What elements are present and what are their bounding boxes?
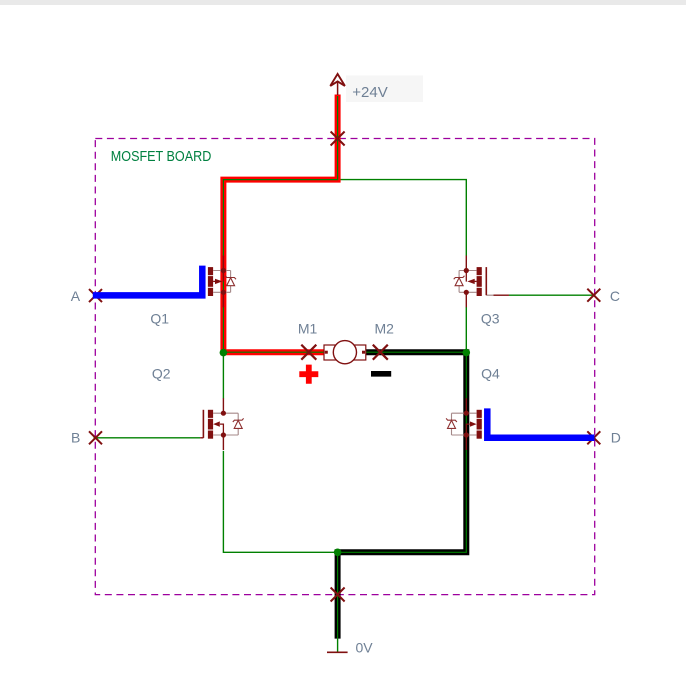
wire: +24V supply path (highlighted red) — [223, 95, 337, 353]
Q2 gate plate — [202, 410, 204, 438]
Q4 body diode — [448, 420, 456, 428]
Q3 drain/source pin stubs — [465, 256, 467, 308]
wire: top rail +24V node to Q3 drain (green) — [338, 180, 467, 256]
wire: ground stem — [337, 639, 339, 652]
Q4 body connection (to source, N-channel) — [466, 424, 469, 435]
Q1 drain junction dot — [221, 268, 226, 273]
Q1 body connection (to source, P-channel) — [222, 271, 224, 282]
Q4 channel bars — [477, 410, 482, 418]
svg-text:Q3: Q3 — [481, 310, 500, 326]
Q3 body diode — [455, 278, 463, 286]
node M2 marker — [373, 345, 388, 360]
Q1 channel bars — [208, 267, 213, 275]
Q4 body diode branch line — [451, 413, 453, 435]
svg-text:Q4: Q4 — [481, 365, 500, 381]
svg-text:+24V: +24V — [352, 84, 387, 101]
terminal C marker — [587, 289, 600, 302]
svg-text:0V: 0V — [356, 640, 374, 656]
svg-text:A: A — [71, 288, 81, 304]
wire: Q3 gate to terminal C — [486, 294, 493, 296]
Q3 P-channel arrow — [467, 279, 474, 284]
wire: Q2 source down and along bottom rail — [223, 451, 337, 552]
wire: terminal B to Q2 gate — [94, 437, 201, 439]
motor M (DC motor symbol) — [324, 345, 366, 360]
Q4 drain junction dot — [464, 411, 469, 416]
terminal D marker — [587, 431, 600, 444]
Q3 drain junction dot — [464, 268, 469, 273]
svg-text:D: D — [611, 429, 621, 445]
Q3 body diode branch line — [458, 271, 460, 293]
terminal A marker — [89, 289, 102, 302]
Q3 body connection (to source, P-channel) — [465, 271, 467, 282]
Q3 channel bars — [477, 267, 482, 275]
Q3 drain/source connection lines — [459, 271, 477, 293]
svg-text:M2: M2 — [375, 321, 395, 337]
Q1 gate plate — [202, 267, 204, 295]
Q4 gate plate — [485, 410, 487, 438]
Q2 channel bars — [208, 410, 213, 418]
Q1 source junction dot — [221, 290, 226, 295]
svg-text:C: C — [610, 288, 620, 304]
svg-text:Q1: Q1 — [150, 310, 169, 326]
wire: Q3 source down to motor-right junction — [465, 307, 467, 353]
Q1 drain/source connection lines — [213, 271, 231, 293]
Q4 source junction dot — [464, 432, 469, 437]
Q2 N-channel arrow — [213, 421, 220, 426]
Q4 N-channel arrow — [470, 421, 477, 426]
Q4 drain/source connection lines — [452, 413, 477, 435]
Q2 drain/source connection lines — [213, 413, 238, 435]
motor polarity - mark — [371, 371, 391, 377]
Q1 body diode branch line — [230, 271, 232, 293]
svg-text:MOSFET BOARD: MOSFET BOARD — [111, 149, 212, 165]
Q1 drain/source pin stubs — [222, 256, 224, 308]
wire: terminal A to Q1 gate (highlighted blue) — [93, 266, 203, 296]
wire: motor-left junction down to Q2 drain — [222, 353, 224, 399]
Q4 drain/source pin stubs — [465, 398, 467, 450]
bottom border crossing marker — [331, 588, 345, 602]
svg-text:M1: M1 — [298, 321, 318, 337]
Q2 body diode branch line — [237, 413, 239, 435]
node M1 marker — [301, 345, 316, 360]
node: Q4 drain / motor-right junction — [463, 349, 471, 357]
Q2 body connection (to source, N-channel) — [220, 424, 223, 435]
Q2 source junction dot — [221, 432, 226, 437]
Q1 body diode — [227, 278, 235, 286]
top border crossing marker — [331, 132, 345, 146]
wire: motor return to ground (highlighted black) — [338, 352, 467, 638]
node: Q1 drain / motor-left junction — [220, 349, 228, 357]
wire: terminal D to Q4 gate (highlighted blue) — [487, 408, 594, 437]
node: bottom rail / ground junction — [334, 549, 342, 557]
svg-text:B: B — [71, 429, 80, 445]
Q2 body diode — [234, 420, 242, 428]
+24V power symbol (arrow) — [330, 74, 345, 86]
Q2 drain junction dot — [221, 411, 226, 416]
Q1 P-channel arrow — [215, 279, 222, 284]
motor polarity + mark — [299, 365, 318, 384]
svg-text:Q2: Q2 — [152, 365, 171, 381]
Q3 gate plate — [485, 267, 487, 295]
Q3 source junction dot — [464, 290, 469, 295]
Q2 drain/source pin stubs — [222, 398, 224, 450]
terminal B marker — [89, 431, 102, 444]
ground 0V symbol — [327, 651, 348, 653]
board outline (dashed) — [95, 139, 594, 595]
